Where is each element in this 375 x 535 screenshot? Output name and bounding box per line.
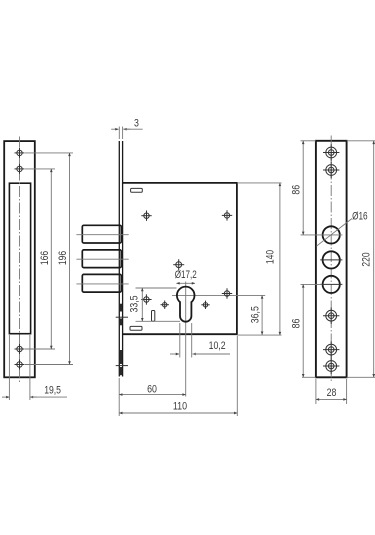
case hole A (left, upper row) xyxy=(141,211,151,221)
svg-text:28: 28 xyxy=(327,387,337,399)
case hole right (follower) xyxy=(222,288,232,298)
screw hole top 2 xyxy=(15,164,25,174)
dimension 220 xyxy=(347,141,375,377)
svg-text:60: 60 xyxy=(147,383,157,395)
dimension 110 xyxy=(119,336,237,416)
svg-text:166: 166 xyxy=(39,251,51,265)
dimension 140 xyxy=(237,183,282,335)
case hole B (right, upper row) xyxy=(222,210,232,220)
svg-text:86: 86 xyxy=(291,319,303,329)
strike plate centerline xyxy=(19,137,21,383)
dimension 36,5 xyxy=(230,295,266,334)
small slot top left xyxy=(131,188,143,192)
plate screw hole 1 xyxy=(323,144,339,160)
horizontal slot in case xyxy=(130,326,142,330)
bolt 2 centerline xyxy=(76,258,128,260)
dimension 60 xyxy=(119,378,186,416)
lock case outline xyxy=(123,183,237,334)
faceplate screw slot hatching xyxy=(120,304,122,376)
screw hole bottom 2 xyxy=(15,360,25,370)
dimension 3 (faceplate thickness) xyxy=(111,127,143,140)
case hole above keyhole xyxy=(173,259,184,270)
keyhole vertical centerline xyxy=(185,282,187,397)
dimension 196 xyxy=(69,153,71,365)
svg-text:86: 86 xyxy=(291,185,303,195)
dimension 86 upper xyxy=(301,141,343,235)
dimension 33,5 xyxy=(136,288,181,321)
faceplate strip xyxy=(118,141,120,377)
small hole right near keyhole xyxy=(201,301,209,309)
plate screw hole 3 xyxy=(323,308,339,324)
cylinder plate outline xyxy=(316,141,347,377)
small hole left near keyhole xyxy=(161,301,169,309)
svg-text:Ø16: Ø16 xyxy=(352,211,368,223)
dimension 10,2 xyxy=(170,323,230,358)
bolt 1 xyxy=(82,225,121,243)
case hole left of keyhole xyxy=(141,294,151,304)
svg-text:36,5: 36,5 xyxy=(250,306,262,323)
cylinder plate centerline xyxy=(330,136,332,383)
strike plate inner opening xyxy=(9,183,30,334)
dimension 166 xyxy=(50,169,52,349)
svg-text:220: 220 xyxy=(360,252,372,266)
svg-text:140: 140 xyxy=(264,250,276,264)
big hole 2 cross xyxy=(320,259,342,261)
bolt 3 centerline xyxy=(76,283,128,285)
bolt 2 xyxy=(82,250,121,268)
svg-text:19,5: 19,5 xyxy=(44,384,61,396)
dimension 28 xyxy=(316,379,347,404)
vertical slot in case xyxy=(152,311,155,322)
svg-text:10,2: 10,2 xyxy=(209,340,226,352)
screw hole bottom 1 xyxy=(15,344,25,354)
big hole 3 cross xyxy=(320,283,342,285)
strike plate outer outline xyxy=(4,141,35,377)
bolt 1 centerline xyxy=(76,234,128,236)
plate screw hole 5 xyxy=(323,358,339,374)
extension lines for 196/166 dims xyxy=(25,153,73,365)
svg-text:196: 196 xyxy=(57,251,69,265)
keyhole (euro profile) xyxy=(177,287,195,322)
keyhole horizontal centerline xyxy=(172,294,231,296)
bolt 3 xyxy=(82,274,121,292)
svg-text:3: 3 xyxy=(134,117,139,129)
svg-text:110: 110 xyxy=(173,400,187,412)
big hole 2 xyxy=(323,251,340,268)
plate screw hole 2 xyxy=(323,162,339,178)
plate screw hole 4 xyxy=(323,341,339,357)
screw hole top 1 xyxy=(15,148,25,158)
Ø16 leader line xyxy=(316,219,352,247)
dimension 19,5 xyxy=(2,335,67,400)
svg-text:33,5: 33,5 xyxy=(129,295,141,312)
dimension 86 lower xyxy=(301,284,323,377)
faceplate screw hole center ticks xyxy=(116,317,128,365)
svg-text:Ø17,2: Ø17,2 xyxy=(175,269,197,281)
big hole 3 xyxy=(323,276,340,293)
big hole 1 (Ø16) xyxy=(323,226,340,243)
